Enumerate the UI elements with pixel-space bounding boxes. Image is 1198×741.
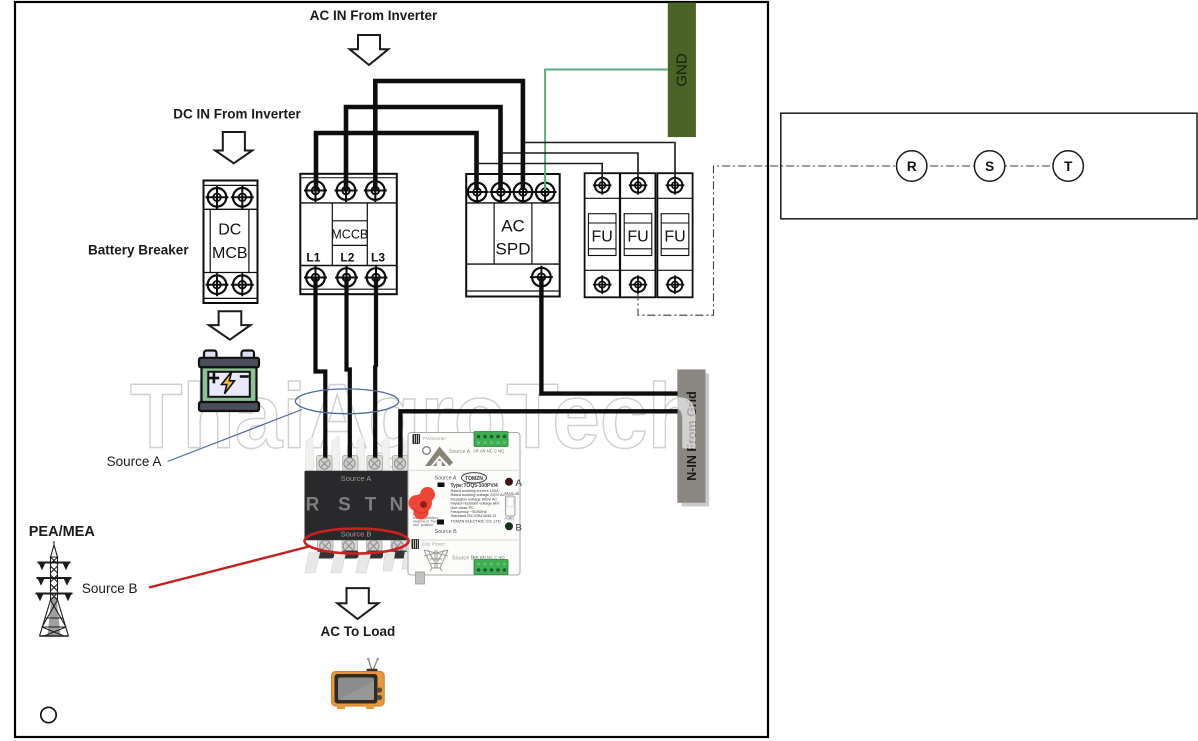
- ATS top terminal blocks: [317, 456, 409, 472]
- wire L3 (MCCB top to SPD): [375, 81, 523, 190]
- svg-text:T: T: [365, 495, 377, 516]
- ATS bottom separator fins: [305, 552, 412, 573]
- svg-text:MCCB: MCCB: [331, 228, 368, 242]
- MCCB screw terminals: [304, 179, 327, 202]
- svg-text:DC: DC: [218, 222, 241, 239]
- arrow down (AC To Load): [337, 588, 378, 619]
- ATS bottom clamp bolts: [317, 551, 408, 559]
- svg-text:DC IN From Inverter: DC IN From Inverter: [173, 107, 301, 122]
- node T: [1053, 151, 1083, 181]
- svg-text:FU: FU: [664, 229, 685, 246]
- svg-text:AC IN From Inverter: AC IN From Inverter: [310, 8, 438, 23]
- ATS bottom terminal blocks: [318, 541, 407, 553]
- surge protector AC SPD body: [466, 174, 560, 297]
- wire N-IN bar to ATS N terminal: [400, 411, 677, 459]
- node S: [974, 151, 1004, 181]
- ATS right control panel: [408, 433, 520, 576]
- svg-text:TOMZN: TOMZN: [465, 476, 483, 482]
- fuse FU3 screw terminals: [666, 176, 685, 195]
- svg-text:Source A: Source A: [341, 474, 371, 483]
- svg-text:City Power: City Power: [422, 542, 446, 548]
- transmission tower icon (PEA/MEA grid): [36, 541, 73, 636]
- bottom-left circle marker: [41, 707, 56, 722]
- arrow down (AC IN): [350, 35, 389, 65]
- ATS rotary knob (red): [409, 487, 436, 520]
- svg-text:PEA/MEA: PEA/MEA: [29, 524, 96, 540]
- ATS transfer switch device: [305, 432, 523, 585]
- wire tap to FU2: [501, 153, 639, 179]
- callout line Source B (red): [149, 546, 311, 588]
- svg-text:L2: L2: [340, 250, 354, 264]
- svg-text:Battery Breaker: Battery Breaker: [88, 243, 189, 258]
- svg-text:PV/Inverter: PV/Inverter: [423, 436, 446, 441]
- svg-text:Source B: Source B: [341, 530, 372, 539]
- AC SPD screw terminals: [466, 181, 489, 204]
- wire MCCB L3 down to ATS: [373, 278, 378, 460]
- fuse FU2 screw terminals: [629, 176, 648, 195]
- TV load icon: [332, 658, 385, 709]
- svg-text:S: S: [338, 495, 351, 516]
- svg-text:L3: L3: [371, 250, 385, 264]
- arrow down (to battery): [209, 311, 251, 339]
- wire MCCB L2 down to ATS: [347, 278, 350, 460]
- svg-text:L1: L1: [306, 250, 320, 264]
- svg-text:A: A: [516, 478, 523, 489]
- callout line Source A (blue): [168, 410, 303, 462]
- svg-text:Source B: Source B: [82, 581, 138, 596]
- wire tap to FU3: [523, 143, 675, 180]
- ATS black switch body: [305, 471, 409, 540]
- svg-text:Auto: Auto: [505, 516, 515, 521]
- svg-text:AR AN NC C NO: AR AN NC C NO: [473, 449, 505, 454]
- fuse FU3 body: [657, 173, 692, 297]
- svg-text:use" position: use" position: [413, 523, 433, 527]
- arrow down (DC IN): [215, 132, 252, 163]
- svg-text:FU: FU: [627, 229, 648, 246]
- svg-text:R: R: [306, 495, 320, 516]
- battery icon: [199, 351, 259, 412]
- wire L2 (MCCB top to SPD): [346, 107, 501, 190]
- fuse FU1 body: [585, 173, 620, 297]
- wire SPD bottom to N-IN bar: [541, 277, 677, 394]
- svg-text:AC To Load: AC To Load: [321, 624, 396, 639]
- highlight ellipse Source A wires (blue): [295, 389, 398, 414]
- node R: [897, 151, 927, 181]
- svg-text:FU: FU: [592, 229, 613, 246]
- ATS top separator fins: [305, 436, 411, 470]
- svg-text:MCB: MCB: [212, 245, 248, 262]
- box around R S T phases: [781, 113, 1197, 219]
- neutral bus bar N-IN From Grid: [678, 370, 706, 503]
- main border frame: [15, 2, 768, 737]
- ATS DIN rail tab: [416, 572, 425, 584]
- svg-text:S: S: [985, 159, 994, 174]
- svg-text:Standard IEC/GB14048.11: Standard IEC/GB14048.11: [451, 513, 497, 518]
- svg-text:AC: AC: [501, 217, 525, 236]
- svg-text:Source A: Source A: [449, 449, 471, 455]
- svg-text:R: R: [907, 159, 917, 174]
- wire ends over terminals: [323, 446, 327, 461]
- DC MCB screw terminals: [206, 186, 229, 209]
- svg-text:B: B: [516, 523, 522, 534]
- svg-text:SPD: SPD: [496, 240, 531, 259]
- svg-text:GND: GND: [674, 53, 691, 87]
- wire L1 (MCCB top to SPD): [316, 133, 477, 190]
- fuse FU2 body: [620, 173, 655, 297]
- ATS top terminal screws: [319, 458, 330, 469]
- svg-text:T: T: [1064, 159, 1073, 174]
- svg-text:Source A: Source A: [107, 454, 162, 469]
- svg-text:Source B: Source B: [435, 529, 458, 535]
- svg-text:Source A: Source A: [435, 476, 457, 482]
- fuse FU1 screw terminals: [593, 176, 612, 195]
- svg-text:Manual: Manual: [505, 491, 520, 496]
- ATS bottom terminal screws: [320, 540, 331, 551]
- neutral bus bar N-IN From Grid (shadow): [682, 374, 710, 507]
- ground wire (SPD to GND bar, green): [545, 70, 668, 191]
- breaker MCCB body: [300, 174, 397, 294]
- svg-text:N: N: [390, 495, 404, 516]
- svg-text:Source B: Source B: [452, 556, 475, 562]
- dash-dot measurement line FU2 to R S T: [638, 166, 1067, 315]
- highlight ellipse Source B terminals (red): [305, 529, 409, 554]
- svg-text:TOMZN ELECTRIC CO.,LTD: TOMZN ELECTRIC CO.,LTD: [451, 519, 501, 524]
- ground bus bar GND: [668, 3, 696, 138]
- breaker DC MCB body: [204, 181, 258, 304]
- wire tap to FU1: [477, 164, 602, 180]
- wire MCCB L1 down to ATS: [316, 278, 326, 460]
